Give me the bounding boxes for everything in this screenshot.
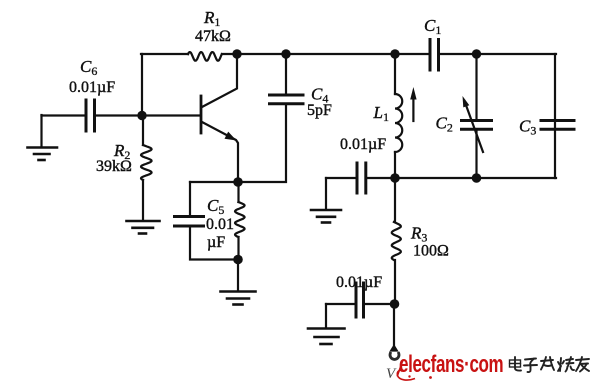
char zi [524,359,537,373]
capacitor C6 [86,100,95,131]
char shao [558,357,574,372]
node base junction [137,111,146,120]
svg-text:0.01µF: 0.01µF [336,274,382,291]
wire C4 top to rail [285,54,287,94]
capacitor C1 [430,40,439,71]
node C1-C2 junction [472,49,481,58]
wire C5 bottom to node [190,228,238,260]
resistor Re (emitter, parallel with C5) [235,182,245,260]
wire base node to transistor base [142,114,200,116]
transistor Q1 [201,54,238,182]
resistor R2 [141,116,152,221]
ground G3 (below emitter network) [221,292,256,305]
ground G5 (below C8) [308,304,345,344]
wire emitter node left to C5 branch [190,181,238,183]
capacitor C2 variable [462,54,492,178]
wire top rail middle segment [222,53,429,55]
char dian [510,357,522,371]
svg-text:0.01: 0.01 [206,216,234,233]
wire R3 node to supply terminal [393,304,395,346]
wire node to ground G3 [237,260,239,292]
svg-text:µF: µF [207,234,225,251]
wire C5 branch down [189,182,191,215]
inductor L1 [395,54,402,178]
resistor R1 [188,52,222,61]
capacitor C4 [270,95,304,104]
svg-text:0.01µF: 0.01µF [69,79,115,96]
capacitor C3 [541,121,574,130]
svg-text:5pF: 5pF [307,102,332,119]
wire top rail right segment [440,53,557,55]
wire C8 left to ground corner [326,303,355,305]
ground G4 (below C7) [311,178,341,223]
wire base node up to top rail [141,54,143,116]
node C5 bottom junction [233,255,243,265]
wire C8 right to R3 node [365,303,394,305]
svg-text:0.01µF: 0.01µF [340,136,386,153]
capacitor C8 bypass 0.01uF (supply side) [356,283,364,317]
wire emitter node to C4 bottom [238,105,286,183]
char you [576,357,589,372]
node L1 bottom junction [390,173,400,183]
node C2 bottom junction [472,173,482,183]
wire ground to C6 [42,114,85,116]
ground G2 (below R2) [127,221,160,234]
wire top rail left segment [141,53,188,55]
svg-text:100Ω: 100Ω [413,243,449,260]
wire C7 right to L1 bottom node [367,177,395,179]
wire C7 left to ground corner [326,177,356,179]
node collector top junction [232,49,241,58]
ground G1 (left of C6) [28,115,58,160]
resistor R3 [392,178,401,304]
watermark elecfans.com [397,351,503,380]
terminal Vcc [389,344,399,359]
node emitter junction [233,177,243,187]
capacitor C7 bypass 0.01uF (emitter side) [357,163,366,193]
arrow L1 tuning [410,87,416,121]
svg-text:39kΩ: 39kΩ [96,158,132,175]
wire C6 to base node [96,114,142,116]
node R3 bottom junction [390,299,400,309]
watermark chinese 电子发烧友 [510,357,590,372]
wire right column [554,54,556,178]
node C4 top junction [281,49,290,58]
svg-text:47kΩ: 47kΩ [195,28,231,45]
node L1 top junction [390,49,399,58]
capacitor C5 [175,217,204,227]
char fa [541,357,554,370]
wire bottom rail [395,177,556,179]
svg-text:elecfans·com: elecfans·com [399,351,503,378]
